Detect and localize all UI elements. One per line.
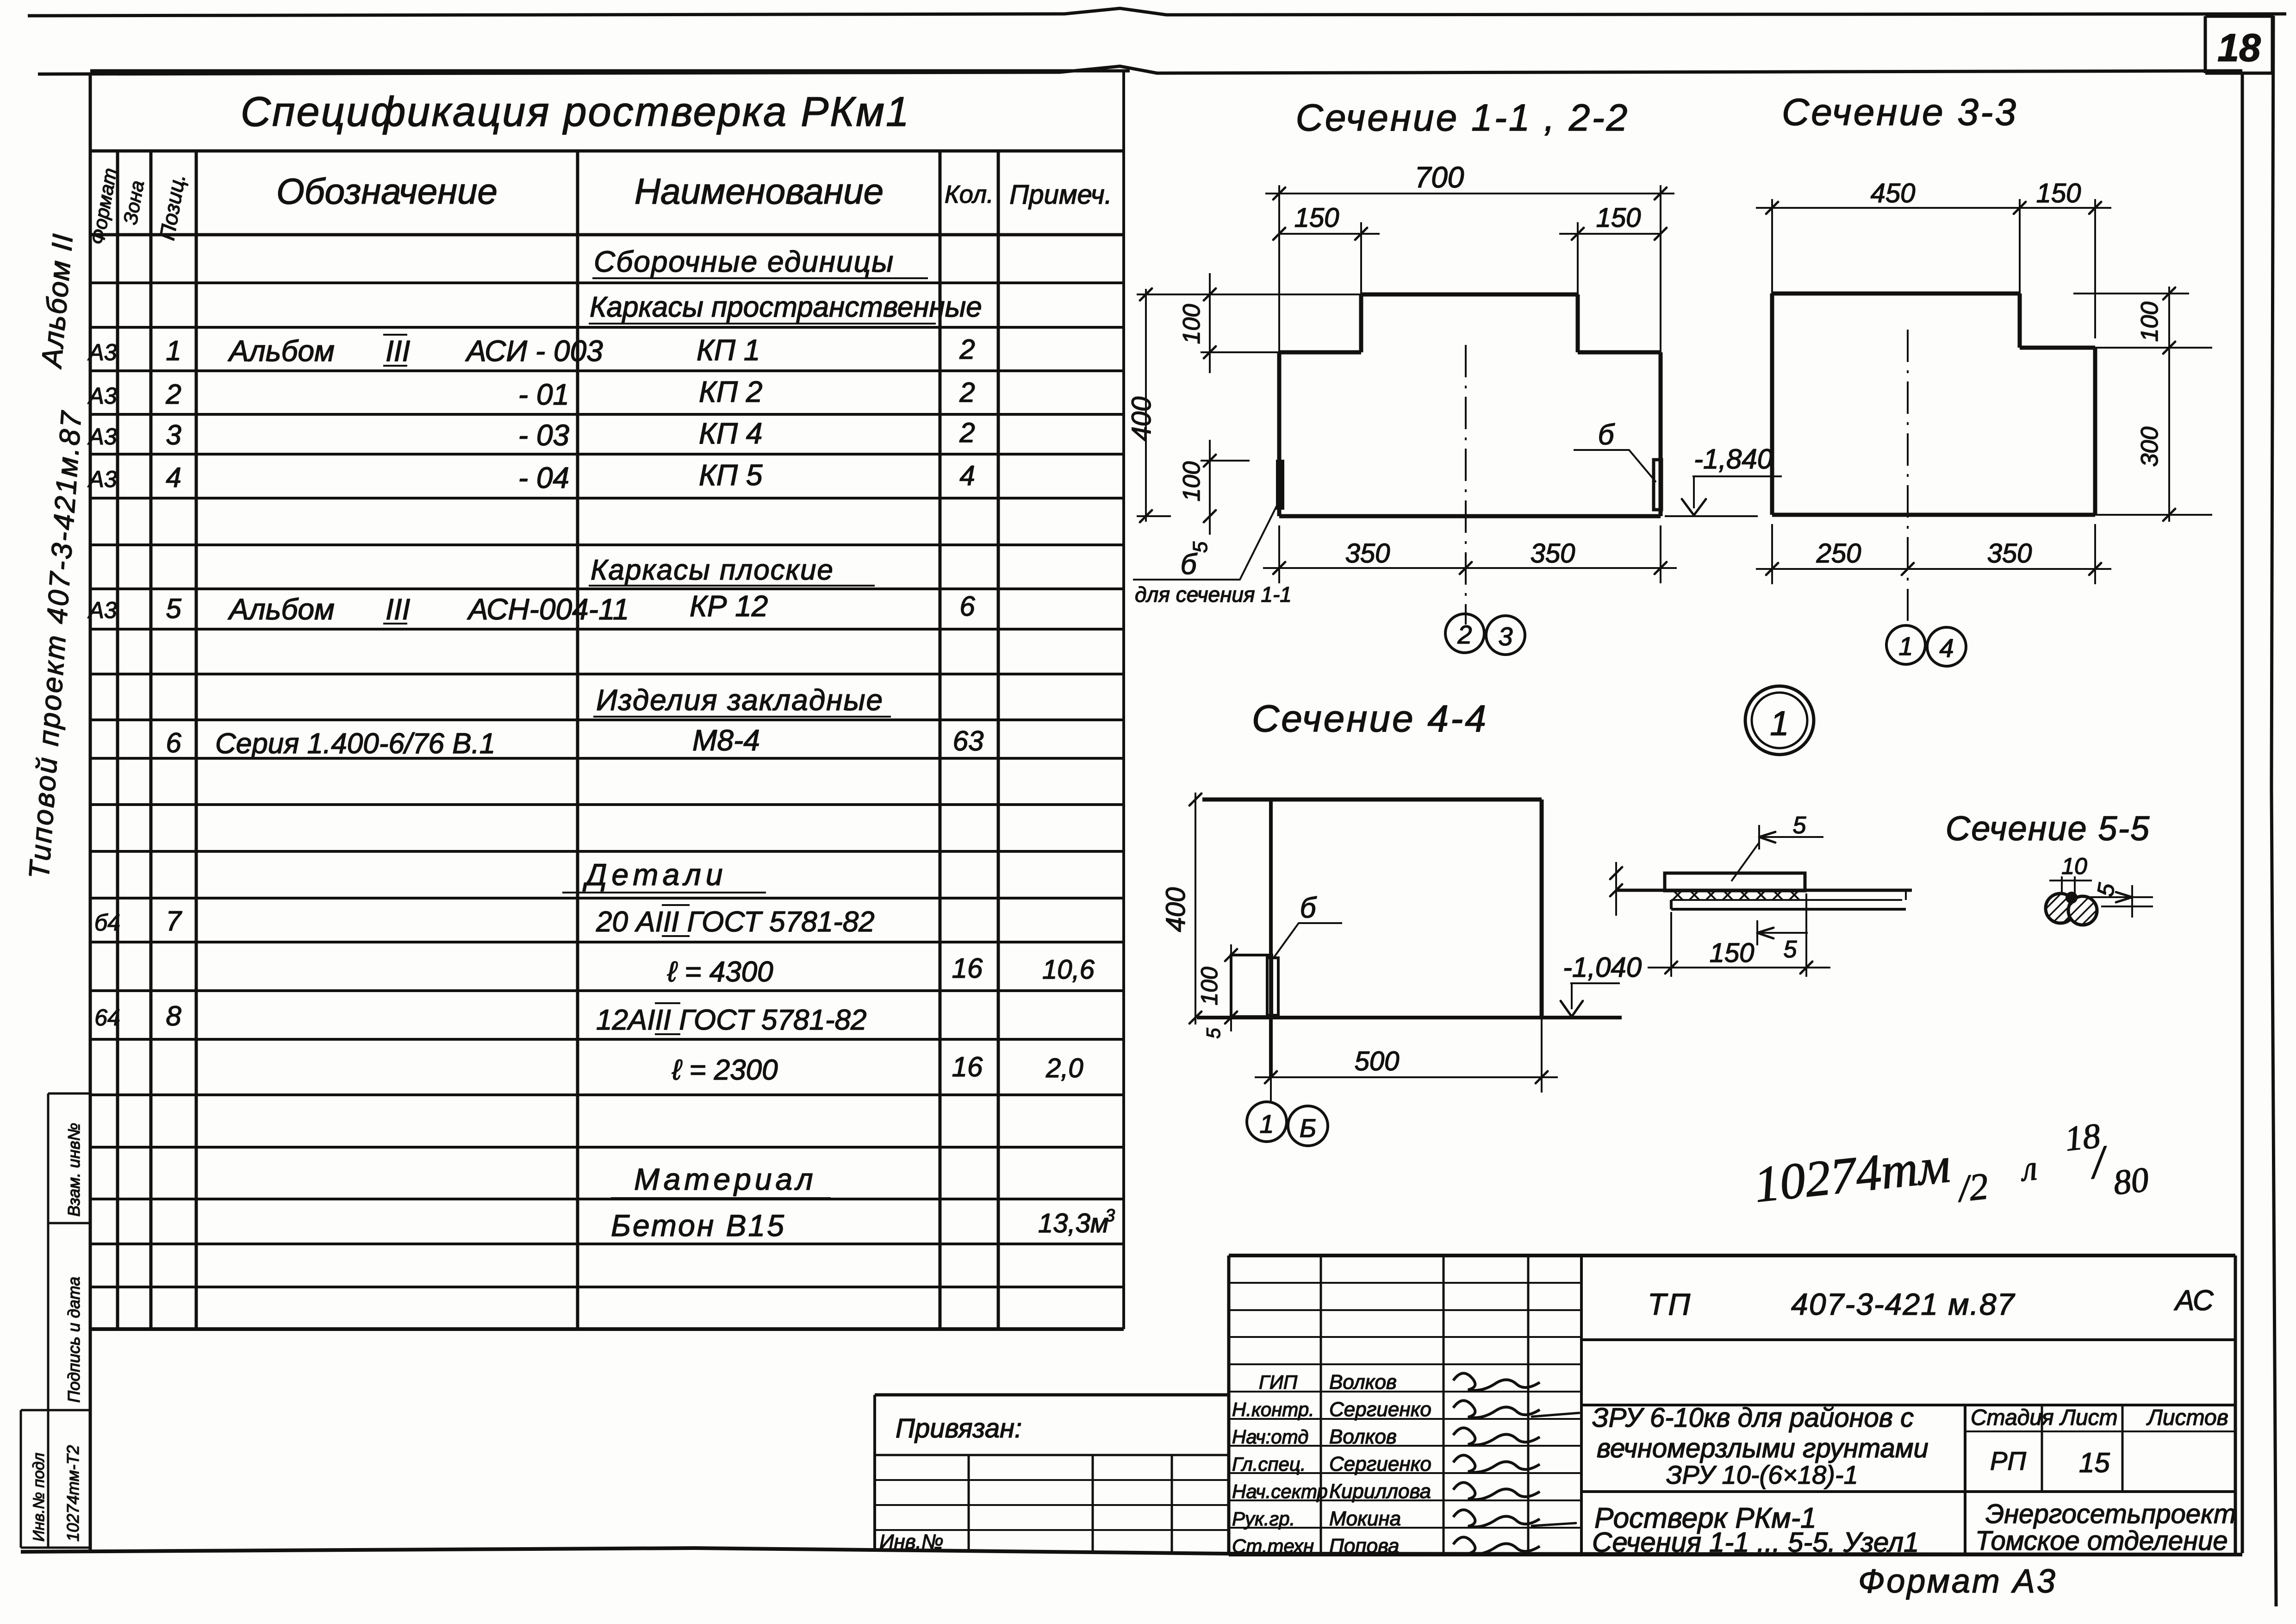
section 4-4 elevation -1.040: [1561, 952, 1642, 1017]
section 1-1 dim 400 left: [1126, 288, 1370, 522]
svg-text:Нач.сектр: Нач.сектр: [1232, 1480, 1328, 1502]
section 1-1 axis line: [1465, 345, 1467, 625]
svg-text:А3: А3: [87, 424, 117, 450]
svg-text:Нач:отд: Нач:отд: [1232, 1426, 1308, 1448]
svg-text:3: 3: [166, 419, 181, 450]
svg-text:АСН-004-11: АСН-004-11: [467, 593, 629, 626]
svg-text:Спецификация ростверка РКм1: Спецификация ростверка РКм1: [241, 89, 910, 135]
row: pos 6 M8-4: [166, 724, 983, 760]
svg-text:6: 6: [166, 727, 181, 758]
svg-text:3: 3: [1498, 622, 1512, 651]
svg-text:Инв.№: Инв.№: [879, 1530, 944, 1553]
svg-text:Сергиенко: Сергиенко: [1329, 1453, 1431, 1475]
svg-text:Привязан:: Привязан:: [896, 1413, 1022, 1443]
svg-text:8: 8: [166, 1000, 181, 1031]
svg-text:Энергосетьпроект: Энергосетьпроект: [1985, 1499, 2236, 1529]
section 1-1 dim 150 left: [1273, 203, 1380, 294]
svg-text:III: III: [386, 334, 411, 368]
section 3-3 axis line: [1907, 330, 1909, 621]
row: pos 7 20 AIII GOST: [94, 905, 875, 938]
svg-text:КП 1: КП 1: [697, 333, 760, 367]
section 4-4 dim 400: [1161, 793, 1201, 1024]
svg-text:б: б: [1300, 892, 1317, 924]
svg-text:2: 2: [1457, 620, 1472, 649]
svg-text:АС: АС: [2173, 1285, 2214, 1317]
svg-text:АСИ - 003: АСИ - 003: [465, 334, 603, 368]
title block outline: [1229, 1255, 2235, 1555]
svg-text:1: 1: [1898, 631, 1913, 661]
svg-text:Формат А3: Формат А3: [1858, 1563, 2057, 1600]
title block signature grid: [1229, 1255, 1581, 1555]
row: pos 8 12AIII GOST: [94, 1000, 866, 1036]
section 1-1 elevation -1.840: [1665, 443, 1782, 516]
svg-text:Сечение 3-3: Сечение 3-3: [1782, 91, 2018, 133]
svg-text:64: 64: [94, 1005, 120, 1031]
svg-text:КП 5: КП 5: [699, 458, 763, 492]
row: Каркасы пространственные: [589, 291, 982, 324]
section 1-1 dim 700: [1265, 161, 1674, 352]
sheet outer top edge: [28, 8, 2286, 16]
node 1 detail left ticks: [1610, 862, 1622, 916]
frame right inner line: [2241, 74, 2244, 1553]
section 3-3 dim 100+300 right: [2073, 287, 2212, 522]
section 3-3 axis circles 1 4: [1886, 625, 1966, 666]
row: pos 4 KP5: [87, 458, 975, 494]
svg-text:5: 5: [1784, 936, 1798, 963]
svg-text:-1,840: -1,840: [1694, 443, 1773, 475]
spec table column headers: [86, 166, 1112, 246]
svg-text:Каркасы пространственные: Каркасы пространственные: [590, 291, 982, 323]
svg-text:Наименование: Наименование: [635, 171, 884, 212]
svg-text:350: 350: [1345, 538, 1390, 568]
row: Материал heading: [611, 1162, 831, 1198]
svg-text:Серия 1.400-6/76 В.1: Серия 1.400-6/76 В.1: [215, 728, 495, 760]
svg-text:А3: А3: [87, 339, 117, 365]
svg-text:Сергиенко: Сергиенко: [1329, 1398, 1431, 1421]
row: Изделия закладные: [593, 683, 891, 717]
section 1-1 body outline: [1279, 294, 1661, 516]
svg-text:Кол.: Кол.: [945, 181, 994, 208]
svg-text:250: 250: [1816, 538, 1861, 568]
svg-text:-1,040: -1,040: [1563, 952, 1642, 983]
node 1 detail dim 5 bottom: [1757, 920, 1808, 963]
svg-text:Альбом: Альбом: [227, 593, 335, 626]
svg-text:150: 150: [1596, 203, 1641, 233]
section 1-1 dim 100 lower: [1178, 440, 1250, 553]
section 1-1 dim 100 upper: [1178, 273, 1279, 373]
svg-text:А3: А3: [87, 383, 117, 409]
svg-text:для сечения 1-1: для сечения 1-1: [1135, 582, 1292, 606]
svg-text:500: 500: [1355, 1046, 1400, 1076]
svg-text:М8-4: М8-4: [692, 724, 760, 757]
svg-text:5: 5: [166, 593, 181, 624]
svg-text:Томское отделение: Томское отделение: [1975, 1526, 2228, 1556]
svg-text:12АIII ГОСТ 5781-82: 12АIII ГОСТ 5781-82: [596, 1004, 866, 1036]
svg-text:350: 350: [1531, 538, 1575, 568]
sheet number box 18: [2205, 16, 2273, 73]
frame top line: [38, 66, 2242, 74]
svg-text:2: 2: [959, 377, 975, 408]
svg-text:III: III: [386, 593, 411, 626]
title block signature rows text: [1232, 1371, 1579, 1557]
svg-text:Сечения 1-1 ... 5-5. Узел1: Сечения 1-1 ... 5-5. Узел1: [1592, 1527, 1919, 1558]
node 1 double circle: [1745, 686, 1814, 755]
svg-text:/2: /2: [1954, 1165, 1990, 1210]
svg-text:Рук.гр.: Рук.гр.: [1232, 1508, 1295, 1530]
svg-text:18: 18: [2217, 26, 2261, 69]
svg-text:2: 2: [165, 379, 181, 410]
svg-text:7: 7: [166, 906, 182, 937]
svg-text:2: 2: [959, 334, 975, 365]
svg-text:6: 6: [959, 591, 975, 622]
svg-text:400: 400: [1161, 887, 1191, 932]
svg-text:5: 5: [1793, 812, 1807, 839]
svg-text:150: 150: [1294, 203, 1339, 233]
title block organization: [1965, 1492, 2236, 1556]
row: l=4300: [667, 953, 1095, 988]
node 1 detail plates: [1616, 873, 1912, 909]
svg-text:Лист: Лист: [2059, 1405, 2118, 1430]
privyazan block: [875, 1395, 1229, 1553]
svg-text:100: 100: [1178, 304, 1205, 344]
svg-text:10274тм-Т2: 10274тм-Т2: [63, 1445, 82, 1542]
svg-text:ЗРУ 10-(6×18)-1: ЗРУ 10-(6×18)-1: [1666, 1460, 1858, 1489]
svg-text:Сечение 5-5: Сечение 5-5: [1946, 809, 2150, 848]
svg-text:КП 4: КП 4: [699, 417, 762, 450]
svg-text:Гл.спец.: Гл.спец.: [1232, 1453, 1306, 1475]
svg-text:Инв.№ подл: Инв.№ подл: [30, 1453, 48, 1542]
svg-text:Сборочные единицы: Сборочные единицы: [594, 245, 894, 278]
svg-text:Взам. инв№: Взам. инв№: [64, 1123, 83, 1217]
title block signatures squiggles: [1453, 1373, 1540, 1554]
svg-text:150: 150: [2036, 178, 2081, 208]
svg-text:63: 63: [953, 725, 984, 756]
node 1 detail dim 150: [1648, 893, 1830, 977]
margin box Инв № подл / 10274тм-Т2: [21, 1410, 90, 1548]
svg-text:100: 100: [1178, 462, 1205, 502]
svg-text:Ст.техн: Ст.техн: [1232, 1535, 1314, 1557]
svg-text:16: 16: [952, 1051, 983, 1082]
margin box Взам инв №: [48, 1093, 90, 1223]
row: pos 3 KP4: [87, 417, 975, 452]
frame bottom line: [21, 1548, 2242, 1555]
row: Сборочные единицы: [592, 245, 928, 278]
svg-text:450: 450: [1871, 178, 1916, 208]
title block sheet name: [1592, 1502, 1919, 1558]
svg-text:Стадия: Стадия: [1971, 1405, 2054, 1430]
svg-text:ℓ = 4300: ℓ = 4300: [667, 956, 773, 988]
svg-text:Сечение 4-4: Сечение 4-4: [1252, 698, 1488, 740]
section 4-4 axis circles 1 B: [1247, 1077, 1328, 1146]
section 3-3 dim 450+150: [1756, 178, 2111, 348]
row: Бетон B15: [611, 1206, 1115, 1243]
section 5-5 dim 5: [2088, 881, 2153, 918]
svg-text:Мокина: Мокина: [1329, 1507, 1401, 1530]
svg-text:Волков: Волков: [1329, 1425, 1397, 1448]
svg-text:Кириллова: Кириллова: [1329, 1480, 1431, 1503]
node 1 detail weld x marks: [1673, 890, 1799, 900]
svg-text:80: 80: [2111, 1160, 2150, 1202]
svg-text:РП: РП: [1990, 1446, 2026, 1475]
title block top band TP 407-3-421: [1581, 1285, 2235, 1405]
svg-text:Листов: Листов: [2146, 1405, 2228, 1430]
svg-text:1: 1: [1770, 704, 1789, 743]
row: Каркасы плоские: [589, 554, 875, 586]
svg-text:407-3-421 м.87: 407-3-421 м.87: [1791, 1287, 2016, 1321]
svg-text:4: 4: [1939, 633, 1954, 662]
svg-text:Подпись и дата: Подпись и дата: [64, 1277, 83, 1403]
svg-text:10: 10: [2061, 853, 2087, 879]
svg-text:20 АIII ГОСТ 5781-82: 20 АIII ГОСТ 5781-82: [596, 906, 875, 938]
svg-text:КП 2: КП 2: [699, 375, 762, 408]
section 4-4 label b with leader: [1275, 892, 1342, 956]
section 1-1 embed plate right: [1654, 460, 1661, 510]
row: pos 1 KP1: [87, 333, 975, 368]
svg-text:4: 4: [166, 462, 181, 493]
section 5-5 dim 10: [2049, 853, 2092, 894]
svg-text:700: 700: [1415, 161, 1464, 194]
row: pos 5 KR12: [87, 589, 975, 626]
svg-text:300: 300: [2136, 427, 2163, 467]
svg-text:Материал: Материал: [634, 1162, 817, 1196]
svg-text:16: 16: [952, 953, 983, 984]
section 4-4 body outline: [1197, 800, 1622, 1077]
svg-text:15: 15: [2079, 1447, 2110, 1478]
section 3-3 dim 250+350: [1756, 524, 2111, 584]
frame left line: [89, 73, 92, 1552]
svg-text:150: 150: [1710, 938, 1755, 968]
row: l=2300: [672, 1051, 1083, 1086]
svg-text:б: б: [1181, 549, 1198, 581]
svg-text:Изделия закладные: Изделия закладные: [596, 683, 884, 717]
svg-text:А3: А3: [87, 597, 117, 623]
svg-text:3: 3: [1105, 1206, 1115, 1225]
svg-text:Альбом: Альбом: [227, 334, 335, 368]
svg-text:2,0: 2,0: [1045, 1053, 1083, 1083]
section 1-1 embed plate left: [1276, 460, 1284, 510]
section 1-1 dim 350+350: [1263, 525, 1677, 583]
svg-text:5: 5: [1202, 1028, 1224, 1039]
svg-text:- 04: - 04: [518, 461, 569, 494]
row: Детали heading: [562, 857, 766, 893]
svg-text:400: 400: [1126, 397, 1157, 442]
svg-text:вечномерзлыми грунтами: вечномерзлыми грунтами: [1597, 1433, 1929, 1463]
section 1-1 label b right with leader: [1574, 419, 1655, 481]
section 4-4 dim 100 square: [1196, 944, 1237, 1039]
svg-text:1: 1: [1259, 1109, 1274, 1138]
section 4-4 dim 500: [1255, 1018, 1558, 1093]
svg-text:- 03: - 03: [518, 418, 570, 452]
svg-text:КР 12: КР 12: [690, 589, 768, 623]
svg-text:2: 2: [959, 417, 975, 448]
handwritten inventory note 10274tm/2 l 18/80: [1751, 1112, 2151, 1240]
svg-text:Обозначение: Обозначение: [276, 171, 498, 212]
node 1 detail dim 5 top: [1732, 812, 1823, 881]
svg-text:ГИП: ГИП: [1259, 1371, 1298, 1393]
spec table horizontal rules: [90, 71, 1130, 1329]
section 1-1 dim 150 right: [1559, 203, 1667, 294]
svg-text:А3: А3: [87, 466, 117, 492]
svg-text:350: 350: [1987, 538, 2032, 568]
svg-text:4: 4: [959, 460, 975, 491]
svg-text:1: 1: [166, 335, 181, 366]
svg-text:ЗРУ 6-10кв для районов с: ЗРУ 6-10кв для районов с: [1592, 1403, 1914, 1433]
svg-text:б4: б4: [94, 910, 120, 936]
spec table vertical rules: [118, 71, 1124, 1329]
svg-text:Н.контр.: Н.контр.: [1232, 1399, 1314, 1420]
svg-text:б: б: [1598, 419, 1615, 451]
svg-text:100: 100: [2136, 302, 2163, 342]
svg-text:13,3м: 13,3м: [1038, 1208, 1109, 1238]
section 4-4 embed plate square: [1231, 955, 1278, 1017]
margin box Подпись и дата: [48, 1223, 90, 1410]
section 1-1 label b left with leader: [1133, 499, 1292, 606]
svg-text:- 01: - 01: [518, 378, 569, 411]
svg-text:Каркасы плоские: Каркасы плоские: [591, 554, 834, 586]
svg-text:ℓ = 2300: ℓ = 2300: [672, 1054, 778, 1086]
title block project name: [1581, 1403, 2235, 1492]
svg-text:Волков: Волков: [1329, 1371, 1397, 1393]
row: pos 2 KP2: [87, 375, 975, 411]
svg-text:Попова: Попова: [1329, 1535, 1400, 1557]
svg-text:ТП: ТП: [1648, 1287, 1692, 1321]
svg-text:Сечение 1-1 , 2-2: Сечение 1-1 , 2-2: [1296, 97, 1630, 139]
svg-text:10,6: 10,6: [1042, 955, 1095, 985]
svg-text:Б: Б: [1300, 1113, 1316, 1143]
svg-text:Детали: Детали: [582, 857, 728, 892]
svg-text:Примеч.: Примеч.: [1009, 180, 1112, 210]
section 1-1 axis circles 2 3: [1445, 614, 1525, 655]
sheet outer right edge: [2271, 16, 2276, 1606]
svg-text:Бетон В15: Бетон В15: [611, 1208, 786, 1243]
svg-text:100: 100: [1196, 967, 1222, 1006]
title block stage sheet columns: [1965, 1405, 2235, 1492]
section 3-3 body outline: [1772, 294, 2095, 515]
